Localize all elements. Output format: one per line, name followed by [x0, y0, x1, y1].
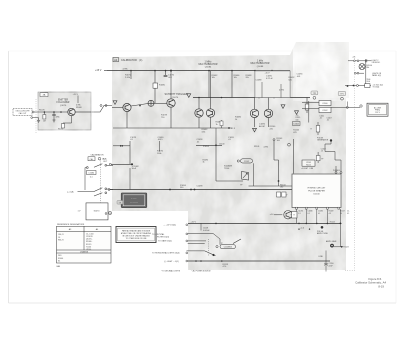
wire main rail — [110, 189, 292, 191]
wire Q1100 emitter — [290, 214, 293, 216]
wire bottom rail — [188, 260, 330, 262]
svg-text:TO 16(6): TO 16(6) — [373, 87, 380, 89]
capacitor C1110 — [324, 263, 333, 271]
svg-text:A4: A4 — [114, 58, 118, 62]
svg-text:TP1: TP1 — [340, 94, 343, 96]
wire relay out — [331, 106, 360, 108]
relay box K1 — [319, 100, 331, 105]
wire mid top — [196, 144, 222, 146]
chassis corner dashes — [345, 270, 355, 272]
wire rail drop 290 — [289, 71, 291, 98]
transformer T1100 — [242, 172, 249, 181]
input dashed box — [13, 108, 32, 115]
svg-text:0.1: 0.1 — [308, 213, 310, 215]
wire hybrid top right — [336, 160, 341, 172]
terminal block box — [302, 160, 315, 166]
svg-text:R1124: R1124 — [330, 222, 335, 224]
switch contact 3 — [94, 192, 107, 196]
svg-text:PANEL 6(4): PANEL 6(4) — [372, 74, 381, 77]
resistor R1087 label — [234, 75, 241, 79]
switch wafer contact — [105, 211, 112, 215]
resistor R1095 label — [203, 159, 209, 163]
svg-text:C1098: C1098 — [197, 186, 204, 188]
svg-text:1M: 1M — [43, 121, 46, 123]
wire Q1084 emitter — [198, 117, 200, 128]
terminal block labels — [301, 168, 313, 170]
diode CR1076 — [148, 100, 154, 106]
label schmitt trigger — [164, 93, 187, 99]
svg-text:Q1070: Q1070 — [60, 105, 67, 107]
svg-text:CHASSIS: CHASSIS — [80, 251, 89, 254]
capacitor C1084 boxed label — [87, 171, 97, 179]
test point TP2 box — [311, 91, 318, 99]
label to gate — [158, 240, 188, 243]
node diamonds lower — [298, 228, 310, 230]
svg-text:R1080: R1080 — [159, 85, 166, 87]
wire feedback arrow — [113, 145, 122, 147]
resistor label right of junction — [197, 186, 204, 188]
capacitor C1095 label — [228, 137, 235, 141]
svg-text:C1088: C1088 — [256, 80, 263, 82]
svg-text:R1123: R1123 — [344, 247, 349, 249]
capacitor C1082 label — [132, 166, 140, 170]
svg-text:R1094: R1094 — [203, 146, 210, 148]
wire gate feed — [188, 241, 206, 244]
assembly label box A4 — [113, 58, 144, 63]
wire contact1 left — [85, 168, 86, 190]
wire relay feed 2 — [302, 108, 319, 110]
svg-text:4.5: 4.5 — [329, 213, 331, 215]
svg-text:C1108823: C1108823 — [224, 247, 232, 249]
svg-text:100: 100 — [296, 119, 299, 121]
wire lower rail — [188, 222, 342, 224]
svg-text:+15 V: +15 V — [73, 94, 79, 96]
svg-text:• ——: • —— — [132, 198, 137, 200]
junction vdc — [347, 85, 355, 87]
svg-text:TO GATE 16(2): TO GATE 16(2) — [158, 240, 172, 243]
wire Q1090 emitter — [268, 118, 270, 128]
svg-text:* TO DECIMAL LIGHTS: * TO DECIMAL LIGHTS — [161, 269, 181, 272]
switch blade bottom — [187, 251, 216, 256]
wire +15V rail — [107, 70, 290, 72]
ground input — [37, 120, 40, 122]
page edge right — [395, 51, 397, 303]
level triangle — [113, 101, 117, 105]
resistor R1092 label — [289, 77, 296, 81]
svg-text:8-19: 8-19 — [378, 284, 384, 288]
svg-text:0.22 uF: 0.22 uF — [266, 78, 274, 80]
svg-text:0.1: 0.1 — [90, 177, 93, 179]
wire lamp bus — [365, 61, 367, 86]
node circle 274 — [273, 139, 275, 141]
svg-text:(–) CAL: (–) CAL — [67, 191, 75, 194]
svg-text:CAL: CAL — [366, 66, 369, 69]
resistor R1098 — [311, 122, 320, 135]
arrow pot — [341, 246, 343, 248]
svg-text:C1084: C1084 — [88, 173, 94, 175]
svg-text:4.99k: 4.99k — [264, 146, 269, 148]
svg-text:FILTER 16(3): FILTER 16(3) — [157, 237, 169, 239]
table col1 text — [58, 234, 64, 241]
label square wave — [224, 165, 233, 170]
wire input step — [91, 106, 112, 113]
wire vdc row — [345, 85, 371, 87]
timing network box — [255, 71, 290, 98]
svg-text:R66–R: R66–R — [58, 239, 64, 241]
wire schmitt base — [112, 107, 123, 109]
wire Q1088 emitter — [254, 118, 256, 128]
wire relay feed — [302, 101, 319, 123]
wire rail drop 272 — [271, 71, 273, 98]
cal connector circle — [109, 163, 111, 165]
svg-text:10uF: 10uF — [132, 168, 137, 170]
capacitor C1094 label — [297, 74, 304, 78]
svg-text:PULSE SHAPER: PULSE SHAPER — [308, 190, 325, 193]
capacitor C1096 label — [259, 124, 266, 128]
chassis dotted line left — [35, 99, 37, 134]
level triangle 4 — [295, 111, 299, 115]
potentiometer R1121 — [330, 244, 334, 248]
ground triangle Q1088 — [253, 128, 257, 132]
svg-text:TP2: TP2 — [313, 93, 316, 95]
switch linkage dashed 2 — [208, 239, 210, 256]
capacitor C1078 label — [130, 137, 137, 141]
transistor Q1076 — [167, 99, 175, 107]
connector circle ac — [360, 105, 362, 107]
resistor R1116 boxed — [316, 152, 320, 163]
svg-text:→ +15 V 16(1): → +15 V 16(1) — [163, 225, 176, 227]
resistor R1084 label — [216, 122, 223, 126]
wire collector rail — [193, 97, 310, 99]
hybrid top pin labels — [333, 170, 340, 172]
resistor R1074 label — [58, 124, 65, 131]
svg-text:HYBRID CIRCUIT: HYBRID CIRCUIT — [308, 188, 326, 190]
svg-text:Q1084: Q1084 — [205, 67, 212, 69]
resistor R1105 label — [293, 130, 300, 134]
test point dot 2 — [330, 139, 332, 141]
relay K1100 boxed label — [220, 245, 236, 249]
svg-text:U1100: U1100 — [313, 194, 320, 196]
wire input to base — [34, 111, 68, 113]
node junction mid — [203, 144, 217, 147]
switch rotor circle — [98, 157, 105, 160]
resistor R1076 label — [157, 151, 164, 155]
svg-text:0.1: 0.1 — [318, 213, 320, 215]
test point TP1 box — [338, 92, 346, 101]
svg-text:CAL: CAL — [90, 158, 94, 161]
wire step connector — [274, 159, 279, 161]
label 1 MHz multivibrator — [199, 60, 218, 68]
svg-text:FROM NO.: FROM NO. — [372, 62, 381, 64]
capacitor C1076 — [164, 71, 175, 79]
svg-text:4.7k: 4.7k — [223, 266, 227, 268]
+15V flag in box — [73, 94, 79, 103]
wire schmitt emitter bus — [113, 127, 232, 129]
switch contact 2 — [94, 188, 113, 192]
capacitor C1108 label — [201, 223, 210, 231]
transistor Q1084 — [195, 109, 203, 117]
resistor R1072 label — [123, 69, 132, 79]
junction relay wire — [346, 106, 348, 108]
table bottom text — [58, 255, 63, 262]
capacitor C1070 — [52, 112, 59, 118]
resistor R1113 label — [223, 264, 229, 268]
chassis dotted line right — [354, 56, 356, 271]
transistor Q1090 — [264, 109, 272, 117]
resistor pair labels — [277, 192, 288, 197]
switch blade mid — [233, 239, 241, 244]
resistor 1M — [43, 112, 46, 123]
svg-text:U1100: U1100 — [86, 249, 91, 251]
wire Q1088 collector — [254, 98, 256, 110]
level triangle 2 — [187, 94, 191, 98]
switch position box — [88, 157, 95, 161]
switch wafer box — [86, 203, 108, 220]
capacitor C1104 label — [293, 122, 301, 126]
hybrid circuit box U1100 — [292, 174, 341, 208]
junction feedback — [122, 145, 124, 147]
svg-text:PULSE: PULSE — [333, 170, 338, 172]
wire transformer out — [249, 185, 293, 187]
test point TP gray box — [117, 201, 123, 205]
svg-text:+15 V: +15 V — [95, 69, 102, 72]
label to crystal filter — [152, 233, 188, 239]
resistor R1115 label cluster — [296, 115, 301, 121]
transistor Q1074 — [123, 103, 131, 111]
svg-text:1k: 1k — [216, 124, 218, 126]
label row2 — [372, 73, 382, 77]
+15V supply flag — [95, 69, 107, 72]
wire rail to Q1084 — [208, 71, 210, 98]
wire Q1084 collector — [198, 98, 200, 109]
specification plate — [121, 193, 146, 208]
svg-text:MULTIVIBRATOR: MULTIVIBRATOR — [251, 62, 270, 65]
emitter follower flag — [40, 93, 48, 97]
svg-text:4.99k: 4.99k — [279, 90, 284, 92]
wire Q1086 emitter — [210, 117, 212, 128]
capacitor C1109 label — [321, 148, 326, 152]
hybrid box pins top — [335, 172, 342, 174]
AC line box — [367, 103, 388, 116]
svg-text:.0015: .0015 — [158, 139, 164, 141]
wire oval drop — [253, 163, 255, 186]
wire Q1100 base — [274, 214, 282, 216]
svg-text:1k: 1k — [235, 119, 237, 121]
svg-text:TO CRYSTAL: TO CRYSTAL — [152, 233, 165, 236]
page edge left — [8, 51, 10, 303]
svg-text:R1074: R1074 — [58, 128, 63, 130]
junctions lower rail — [215, 223, 341, 225]
svg-text:R1070: R1070 — [39, 109, 45, 111]
svg-text:L1100: L1100 — [366, 81, 371, 83]
resistor R1081 label — [212, 75, 219, 79]
node input circles — [100, 105, 107, 107]
svg-text:C1100: C1100 — [219, 143, 224, 145]
wire Q1100 down — [296, 209, 298, 223]
label pulse amplitude — [317, 231, 329, 235]
transistor Q1070 — [68, 108, 75, 115]
svg-text:TP: TP — [221, 243, 223, 245]
svg-text:Q1074: Q1074 — [172, 97, 179, 99]
label +15VDC — [373, 84, 384, 88]
wire line down — [325, 251, 327, 263]
svg-text:K1100: K1100 — [322, 103, 327, 105]
svg-text:100k: 100k — [157, 153, 161, 155]
wire TP link — [335, 159, 341, 161]
svg-text:0.1: 0.1 — [298, 213, 300, 215]
switch contact 1 — [86, 164, 113, 169]
svg-text:R1101: R1101 — [254, 146, 259, 148]
wire step down — [325, 142, 335, 160]
wire pin to pot — [339, 209, 341, 247]
svg-text:3.3k: 3.3k — [202, 131, 206, 133]
capacitor C1111 label — [320, 115, 325, 119]
junctions main rail — [169, 189, 195, 191]
test point dot — [321, 226, 324, 229]
svg-text:LINE: LINE — [319, 256, 324, 258]
table col2 text — [86, 233, 93, 250]
svg-text:0.001uF: 0.001uF — [203, 230, 210, 232]
capacitor C1080 label — [158, 137, 165, 141]
svg-text:10k: 10k — [212, 77, 215, 79]
svg-text:GENERATOR: GENERATOR — [317, 139, 329, 142]
svg-text:CALIBRATOR: CALIBRATOR — [90, 153, 104, 156]
resistor R1104 label — [280, 184, 285, 188]
svg-text:EMITTER: EMITTER — [58, 99, 68, 101]
lamp DS1000 — [359, 64, 365, 70]
svg-text:FOLLOWER: FOLLOWER — [57, 102, 70, 104]
relay box K2 — [319, 107, 331, 112]
svg-text:.01: .01 — [327, 120, 330, 122]
svg-text:180: 180 — [280, 187, 283, 189]
input terminal 2 — [31, 117, 33, 119]
svg-text:C1102: C1102 — [244, 161, 249, 163]
wire Q1076 emitter — [170, 107, 172, 128]
svg-text:C1104: C1104 — [293, 124, 298, 126]
wire Q1076 collector — [154, 92, 156, 103]
shaded scan region (main) — [112, 42, 346, 270]
svg-text:.01: .01 — [320, 118, 322, 120]
wire feedback vertical — [129, 141, 131, 164]
svg-text:R1115: R1115 — [306, 164, 311, 166]
wire mid vertical — [215, 145, 217, 181]
page edge top — [9, 50, 397, 52]
figure caption — [355, 277, 386, 289]
resistor R1068 label — [76, 105, 82, 109]
input terminal — [32, 111, 34, 113]
capacitor row1 — [366, 59, 367, 62]
svg-text:MULTIVIBRATOR: MULTIVIBRATOR — [199, 63, 218, 66]
scan streaks — [150, 54, 342, 270]
resistor R1109 box — [282, 192, 286, 197]
svg-text:+4 LIGHT: +4 LIGHT — [301, 168, 308, 170]
resistor R1080 — [153, 71, 166, 92]
resistor R1083 label — [246, 75, 253, 79]
svg-text:* AC POWER SOURCE: * AC POWER SOURCE — [192, 269, 212, 272]
wire feedback horiz — [122, 145, 130, 147]
wire R1076 branch — [159, 141, 161, 152]
svg-text:+4.6: +4.6 — [300, 227, 304, 229]
svg-text:Q1088: Q1088 — [257, 66, 264, 68]
wire schmitt coupling — [131, 104, 148, 107]
junction 278 — [278, 180, 280, 182]
svg-text:TO OTHER SIDE OF LINE: TO OTHER SIDE OF LINE — [126, 238, 148, 240]
relay circle — [216, 246, 218, 248]
switch linkage dashed — [100, 161, 102, 206]
svg-text:S1070: S1070 — [94, 211, 101, 213]
junctions bottom rail — [195, 260, 222, 262]
wire Q1070 emitter — [63, 116, 72, 127]
transistor Q1086 — [206, 109, 214, 117]
table header — [69, 228, 99, 231]
connector circle vdc — [356, 85, 358, 87]
svg-text:LINE: LINE — [310, 168, 314, 170]
svg-text:470k: 470k — [56, 116, 60, 118]
svg-text:AMPLITUDE: AMPLITUDE — [317, 232, 329, 235]
wire rail drop 255 — [254, 71, 256, 98]
wire Q1090 collector — [268, 98, 270, 110]
wire schmitt coupling 2 — [154, 102, 167, 104]
note box — [116, 227, 156, 243]
input label — [15, 110, 30, 115]
resistor R1097 — [305, 98, 309, 114]
label +15V out — [163, 224, 188, 227]
rail terminal — [108, 189, 110, 191]
node +2.3 — [228, 127, 236, 130]
svg-text:+15: +15 — [352, 57, 355, 59]
wire 278 down — [278, 160, 280, 186]
wire 274 down — [273, 141, 275, 160]
label pulse generator — [317, 137, 329, 141]
wire timing box internal 1 — [261, 82, 263, 98]
cal connector label — [103, 158, 108, 164]
junction on +15V rail — [130, 70, 273, 72]
svg-text:R1068: R1068 — [76, 107, 82, 109]
resistor R1082 label — [202, 129, 209, 133]
resistor R1103 label — [277, 138, 284, 142]
wire lamp row1 — [348, 60, 372, 62]
svg-text:115 V: 115 V — [375, 112, 380, 114]
resistor R1085 stub — [220, 120, 223, 128]
coil C1102 label — [237, 159, 252, 163]
transistor Q1100 — [284, 211, 292, 219]
label 1 kHz multivibrator — [251, 59, 270, 68]
svg-text:0.1: 0.1 — [347, 213, 349, 215]
level triangle 3 — [281, 105, 285, 109]
label light minus — [164, 260, 188, 263]
svg-text:T1100: T1100 — [224, 168, 229, 170]
svg-text:TO HORIZONTAL LIGHTS 16(4): TO HORIZONTAL LIGHTS 16(4) — [152, 252, 180, 255]
reference designators table — [57, 226, 112, 263]
component box vdc — [365, 84, 370, 88]
wire Q1074 emitter — [126, 112, 128, 129]
svg-text:CAL OUT: CAL OUT — [19, 112, 28, 115]
svg-text:(–) LIGHT → 6(1): (–) LIGHT → 6(1) — [164, 261, 179, 263]
wire 216 up — [215, 128, 217, 145]
wire Q1070 output — [75, 111, 91, 113]
shaded scan region (top-right patch) — [296, 42, 349, 98]
junction schmitt base — [139, 105, 141, 107]
svg-text:+15 V: +15 V — [265, 73, 271, 75]
wire crystal feed — [188, 233, 220, 244]
resistor box R1119 — [292, 211, 298, 218]
resistor R1078 label — [161, 115, 168, 119]
node circle 289 — [288, 143, 291, 146]
capacitor C1098 label — [197, 139, 204, 143]
svg-text:— ———: — ——— — [130, 201, 138, 203]
transistor Q1088 — [250, 109, 258, 117]
svg-text:20k: 20k — [246, 77, 249, 79]
